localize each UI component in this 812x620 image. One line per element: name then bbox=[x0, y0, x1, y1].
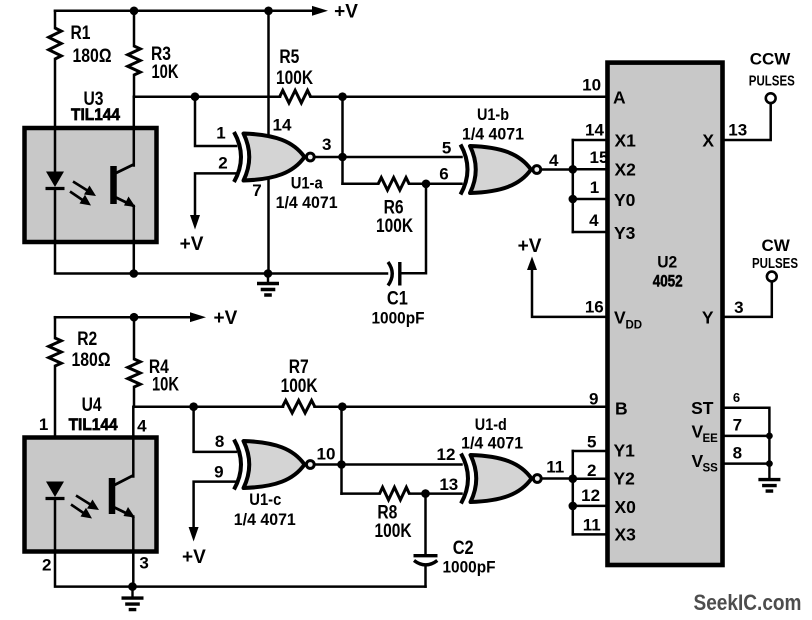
svg-text:TIL144: TIL144 bbox=[69, 415, 118, 434]
svg-text:180Ω: 180Ω bbox=[72, 350, 111, 371]
svg-text:4052: 4052 bbox=[653, 272, 683, 291]
wire R6 to U1-b input 6 bbox=[409, 183, 461, 186]
arrow +V bottom rail bbox=[190, 312, 206, 322]
svg-text:U1-c: U1-c bbox=[249, 490, 281, 509]
wire +V top supply rail bbox=[55, 10, 314, 13]
optocoupler U4 box bbox=[25, 438, 157, 552]
wire stub X2 bbox=[573, 168, 608, 171]
op-amp gate U1-a input arc bbox=[234, 132, 241, 182]
svg-text:R2: R2 bbox=[77, 329, 97, 350]
svg-text:14: 14 bbox=[585, 121, 604, 140]
junction bottom rail / R4 bbox=[130, 313, 139, 322]
junction VSS / ground bbox=[766, 460, 773, 467]
wire pin VSS bbox=[723, 462, 770, 465]
resistor R7 bbox=[283, 400, 315, 413]
svg-text:2: 2 bbox=[218, 153, 227, 172]
wire pin Y to CW terminal bbox=[723, 282, 772, 317]
svg-text:10K: 10K bbox=[152, 62, 179, 83]
bubble U1-d output bbox=[533, 475, 541, 483]
junction U3 emitter / ground bus bbox=[130, 269, 139, 278]
junction node A / U1-a input 1 bbox=[191, 92, 200, 101]
svg-text:Y: Y bbox=[702, 307, 714, 327]
svg-text:12: 12 bbox=[437, 445, 456, 464]
svg-text:1: 1 bbox=[39, 415, 48, 434]
wire U4 emitter bbox=[132, 517, 135, 587]
svg-text:11: 11 bbox=[583, 515, 601, 534]
svg-text:X: X bbox=[702, 131, 714, 151]
svg-text:11: 11 bbox=[546, 457, 564, 476]
svg-text:B: B bbox=[615, 399, 628, 419]
wire U3 LED anode bbox=[54, 128, 57, 174]
wire stub Y3 bbox=[573, 231, 608, 234]
svg-text:1: 1 bbox=[590, 178, 599, 197]
wire R8 to U1-d input 13 bbox=[409, 492, 461, 495]
svg-text:X3: X3 bbox=[615, 524, 637, 544]
wire R3 top lead bbox=[133, 11, 136, 46]
or-gate U1-d body bbox=[471, 455, 532, 502]
wire R2 top lead bbox=[54, 317, 57, 338]
wire R3 bottom lead bbox=[133, 75, 136, 97]
phototransistor U3 bbox=[110, 166, 117, 204]
svg-text:7: 7 bbox=[252, 181, 261, 200]
svg-text:1/4 4071: 1/4 4071 bbox=[461, 433, 523, 452]
svg-text:100K: 100K bbox=[276, 68, 313, 89]
wire C2 top lead bbox=[424, 494, 427, 554]
svg-text:CCW: CCW bbox=[750, 50, 792, 69]
or-gate U1-b body bbox=[470, 146, 531, 193]
svg-text:1/4 4071: 1/4 4071 bbox=[276, 193, 338, 212]
svg-text:3: 3 bbox=[139, 553, 148, 572]
svg-text:3: 3 bbox=[322, 135, 331, 154]
svg-text:+V: +V bbox=[182, 547, 206, 568]
arrow +V U1-c input 9 bbox=[189, 527, 199, 542]
optocoupler U3 box bbox=[25, 128, 157, 242]
capacitor C2 bbox=[414, 554, 438, 557]
svg-text:X2: X2 bbox=[615, 160, 637, 180]
svg-text:4: 4 bbox=[549, 151, 559, 170]
wire stub Y1 bbox=[573, 450, 608, 453]
wire R2 bottom lead to LED bbox=[54, 366, 57, 484]
svg-text:A: A bbox=[613, 87, 626, 107]
svg-text:+V: +V bbox=[180, 234, 204, 255]
wire ground bus top half bbox=[55, 242, 387, 274]
svg-text:2: 2 bbox=[587, 461, 596, 480]
svg-text:13: 13 bbox=[439, 475, 458, 494]
resistor R2 bbox=[49, 338, 62, 366]
svg-text:R1: R1 bbox=[71, 23, 91, 44]
wire C1 to R6 node bbox=[400, 184, 426, 273]
svg-text:100K: 100K bbox=[375, 521, 412, 542]
wire U1-d output bbox=[543, 477, 573, 480]
svg-text:5: 5 bbox=[587, 433, 596, 452]
wire U1-b output bbox=[542, 168, 573, 171]
svg-text:7: 7 bbox=[733, 415, 742, 434]
svg-text:16: 16 bbox=[585, 298, 604, 317]
svg-text:9: 9 bbox=[589, 390, 598, 409]
ground right side bbox=[768, 464, 770, 479]
svg-text:1: 1 bbox=[216, 124, 225, 143]
junction node B / R7 output bbox=[338, 402, 347, 411]
resistor R6 bbox=[378, 178, 409, 191]
svg-text:6: 6 bbox=[733, 390, 740, 405]
wire R4 top lead bbox=[133, 317, 136, 359]
junction bracket X2 bbox=[569, 165, 578, 174]
junction top rail / U1-a pin 14 bbox=[264, 7, 273, 16]
svg-text:1/4 4071: 1/4 4071 bbox=[462, 125, 524, 144]
svg-text:8: 8 bbox=[733, 444, 742, 463]
svg-text:12: 12 bbox=[581, 486, 600, 505]
arrow +V VDD bbox=[527, 257, 537, 271]
capacitor C1 bbox=[398, 262, 401, 286]
arrow +V U1-a input 2 bbox=[190, 215, 200, 230]
IC U2 4052 body bbox=[608, 63, 723, 565]
junction R8 / C2 bbox=[421, 489, 430, 498]
ground top half bbox=[267, 274, 269, 283]
ground bottom half bbox=[131, 587, 133, 598]
svg-text:4: 4 bbox=[137, 416, 147, 435]
junction U1-a pin7 / ground bus bbox=[264, 269, 273, 278]
wire U3 emitter bbox=[133, 206, 136, 274]
wire U1-a input 1 bbox=[195, 97, 236, 146]
wire R7 node to output node bbox=[340, 407, 343, 494]
wire stub Y2 bbox=[573, 477, 608, 480]
wire U1-c input 9 bbox=[194, 482, 236, 528]
svg-text:V: V bbox=[614, 307, 626, 327]
svg-text:C1: C1 bbox=[387, 289, 408, 310]
junction U1-a output / feedback bbox=[338, 153, 347, 162]
svg-text:SS: SS bbox=[703, 463, 719, 475]
or-gate U1-d input arc bbox=[461, 454, 468, 504]
or-gate U1-b input arc bbox=[461, 145, 468, 195]
wire +V to VDD pin 16 bbox=[532, 269, 608, 317]
svg-text:U1-b: U1-b bbox=[477, 105, 509, 124]
svg-text:Y3: Y3 bbox=[614, 223, 636, 243]
svg-text:TIL144: TIL144 bbox=[71, 105, 120, 124]
junction R6 / C1 bbox=[422, 180, 431, 189]
wire output node to R8 bbox=[342, 492, 380, 495]
junction bracket Y0 bbox=[569, 195, 578, 204]
light arrows U4 bbox=[71, 496, 92, 515]
svg-text:14: 14 bbox=[273, 116, 292, 135]
phototransistor U4 bbox=[109, 478, 116, 514]
svg-text:+V: +V bbox=[214, 308, 238, 329]
wire U3 collector bbox=[133, 97, 136, 166]
svg-text:10: 10 bbox=[582, 76, 601, 95]
svg-text:U2: U2 bbox=[657, 252, 677, 271]
svg-text:CW: CW bbox=[762, 236, 791, 255]
wire U4 LED cathode bbox=[54, 499, 57, 552]
resistor R4 bbox=[128, 359, 141, 387]
junction VEE / ground bbox=[766, 433, 773, 440]
wire R4 bottom lead bbox=[133, 387, 136, 407]
bubble U1-a output bbox=[306, 153, 314, 161]
wire stub X0 bbox=[573, 505, 608, 508]
svg-text:U1-a: U1-a bbox=[291, 174, 323, 193]
svg-text:10: 10 bbox=[317, 445, 336, 464]
bubble U1-c output bbox=[306, 461, 314, 469]
svg-text:2: 2 bbox=[42, 556, 51, 575]
wire U3 LED cathode bbox=[54, 189, 57, 242]
or-gate U1-c body bbox=[244, 441, 305, 488]
wire U1-c input 8 bbox=[194, 407, 236, 452]
svg-text:13: 13 bbox=[728, 121, 747, 140]
wire R1 top lead bbox=[54, 11, 57, 28]
junction node A / R5 output bbox=[338, 92, 347, 101]
svg-text:C2: C2 bbox=[453, 538, 474, 559]
junction U4 emitter / ground bus bbox=[128, 582, 137, 591]
svg-text:R7: R7 bbox=[289, 357, 309, 378]
wire R5 to output node bbox=[341, 97, 344, 184]
svg-text:10K: 10K bbox=[152, 375, 179, 396]
wire U1-a input 2 bbox=[195, 173, 236, 216]
LED U3 bbox=[46, 172, 64, 188]
junction top rail / R3 bbox=[130, 7, 139, 16]
svg-text:180Ω: 180Ω bbox=[73, 46, 112, 67]
svg-text:4: 4 bbox=[589, 211, 599, 230]
svg-text:Y0: Y0 bbox=[614, 190, 636, 210]
svg-text:EE: EE bbox=[703, 433, 719, 445]
svg-text:X1: X1 bbox=[615, 131, 637, 151]
resistor R1 bbox=[49, 28, 62, 59]
wire U1-c output to U1-d input 12 bbox=[316, 463, 462, 466]
svg-text:1000pF: 1000pF bbox=[372, 308, 425, 327]
svg-text:DD: DD bbox=[626, 319, 643, 331]
svg-text:U1-d: U1-d bbox=[475, 415, 507, 434]
wire stub X1 bbox=[573, 139, 608, 142]
wire node A horizontal bbox=[134, 95, 280, 98]
wire U1-a pin 14 bbox=[267, 11, 270, 140]
light arrows U3 bbox=[70, 182, 89, 202]
svg-text:U4: U4 bbox=[82, 395, 102, 416]
svg-text:SeekIC.com: SeekIC.com bbox=[694, 590, 802, 615]
or-gate U1-c input arc bbox=[234, 440, 241, 490]
wire +V bottom supply rail bbox=[55, 316, 192, 319]
wire output node to R6 bbox=[343, 183, 379, 186]
terminal CW bbox=[767, 272, 777, 282]
resistor R8 bbox=[380, 487, 410, 500]
wire U4 collector bbox=[132, 407, 135, 477]
wire pin VEE bbox=[723, 435, 770, 438]
svg-text:1/4 4071: 1/4 4071 bbox=[234, 510, 296, 529]
wire stub Y0 bbox=[573, 198, 608, 201]
svg-text:Y1: Y1 bbox=[614, 440, 636, 460]
svg-text:3: 3 bbox=[734, 298, 743, 317]
svg-text:Y2: Y2 bbox=[614, 469, 636, 489]
wire C2 bottom lead bbox=[424, 565, 427, 587]
wire pin X to CCW terminal bbox=[723, 104, 771, 141]
resistor R3 bbox=[128, 46, 141, 75]
svg-text:PULSES: PULSES bbox=[752, 255, 798, 272]
wire R1 bottom lead to LED bbox=[54, 59, 57, 170]
wire U1-a pin 7 bbox=[267, 173, 270, 274]
svg-text:1000pF: 1000pF bbox=[443, 557, 496, 576]
junction bracket X0 bbox=[569, 502, 578, 511]
svg-text:100K: 100K bbox=[281, 376, 318, 397]
wire U1-a output to U1-b input 5 bbox=[316, 156, 462, 159]
svg-text:9: 9 bbox=[214, 462, 223, 481]
wire stub X3 bbox=[573, 533, 608, 536]
wire pin ST bbox=[723, 408, 770, 464]
svg-text:6: 6 bbox=[439, 165, 448, 184]
svg-text:+V: +V bbox=[518, 236, 542, 257]
svg-text:8: 8 bbox=[215, 432, 224, 451]
arrow +V top rail bbox=[312, 6, 328, 16]
svg-text:ST: ST bbox=[691, 398, 714, 418]
svg-text:5: 5 bbox=[442, 139, 451, 158]
svg-text:R5: R5 bbox=[279, 47, 299, 68]
svg-text:PULSES: PULSES bbox=[749, 73, 795, 90]
resistor R5 bbox=[280, 90, 311, 103]
bubble U1-b output bbox=[533, 166, 541, 174]
junction node B / U1-c input 8 bbox=[189, 402, 198, 411]
svg-text:+V: +V bbox=[334, 2, 358, 23]
terminal CCW bbox=[766, 93, 776, 103]
wire bracket Y1-X3 bbox=[572, 451, 575, 534]
wire ground bus bottom half bbox=[55, 552, 426, 587]
svg-text:100K: 100K bbox=[376, 216, 413, 237]
LED U4 bbox=[46, 482, 64, 498]
wire bracket X1-Y3 bbox=[572, 140, 575, 232]
junction bracket Y2 bbox=[569, 474, 578, 483]
junction U1-c output / feedback bbox=[337, 460, 346, 469]
or-gate U1-a body bbox=[244, 134, 305, 181]
wire node B horizontal bbox=[134, 405, 283, 408]
svg-text:X0: X0 bbox=[615, 497, 637, 517]
